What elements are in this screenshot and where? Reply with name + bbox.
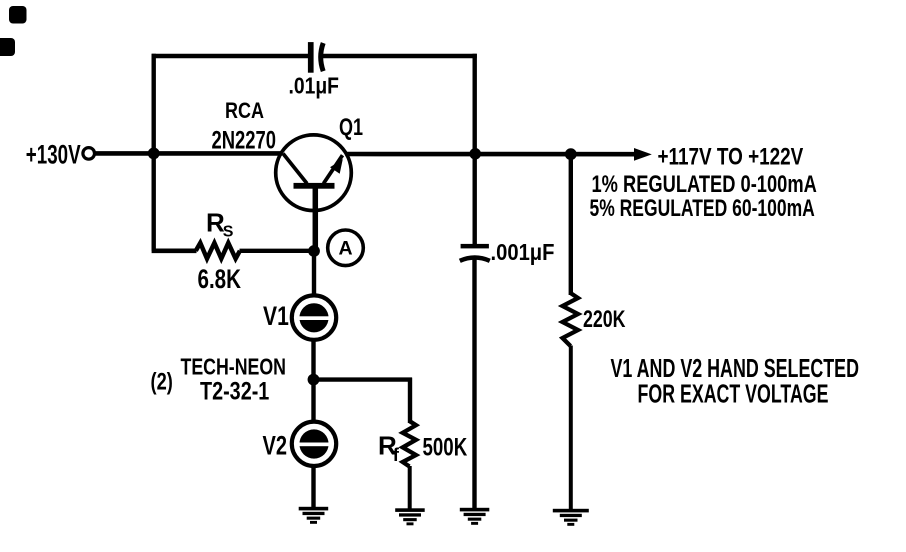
wire V1 to junction <box>311 340 315 382</box>
resistor R_S 6.8K zigzag <box>196 243 240 259</box>
wire junction to Rf corner <box>314 377 413 381</box>
svg-text:TECH-NEON: TECH-NEON <box>181 354 287 380</box>
svg-text:V1: V1 <box>263 301 289 331</box>
ground below Rf <box>395 508 425 525</box>
svg-text:6.8K: 6.8K <box>198 264 242 294</box>
wire Rf top lead <box>408 378 412 423</box>
scan artifact square top-left <box>9 6 27 24</box>
wire main horizontal right (Q1 to output arrow) <box>345 152 638 157</box>
junction below V1 <box>308 374 320 386</box>
junction input node <box>148 148 160 160</box>
svg-text:FOR EXACT VOLTAGE: FOR EXACT VOLTAGE <box>638 380 829 408</box>
svg-text:V2: V2 <box>263 430 288 460</box>
junction at top-right vertical <box>469 148 481 160</box>
svg-text:T2-32-1: T2-32-1 <box>200 377 269 405</box>
svg-text:2N2270: 2N2270 <box>212 126 277 154</box>
wire Rf bottom lead <box>408 466 412 511</box>
wire top feedback right segment <box>322 54 477 59</box>
resistor 220K zigzag <box>563 293 579 346</box>
transistor Q1 <box>276 135 352 211</box>
svg-text:220K: 220K <box>583 306 626 333</box>
wire output vertical upper (junction to 220K) <box>569 154 573 295</box>
capacitor C1 .01uF plates <box>308 42 323 73</box>
wire Rs left lead <box>152 249 197 254</box>
junction node A dot <box>308 245 320 257</box>
wire right vertical upper (top wire to C2) <box>473 54 477 245</box>
wire Q1 base stem down <box>313 186 319 251</box>
neon lamp V2 <box>292 422 336 466</box>
arrowhead output <box>634 148 652 161</box>
resistor R_f 500K zigzag <box>403 421 416 466</box>
wire main horizontal left (input to Q1) <box>95 151 282 156</box>
svg-text:+130V: +130V <box>26 139 81 169</box>
wire Rs right lead <box>240 249 317 253</box>
ground below C2 <box>460 508 490 525</box>
wire right vertical lower (C2 to ground) <box>472 259 476 511</box>
capacitor C2 .001uF <box>460 244 490 261</box>
svg-text:.001μF: .001μF <box>491 239 555 265</box>
ground below V2 <box>299 507 329 524</box>
terminal circle input <box>83 148 95 160</box>
svg-text:RCA: RCA <box>225 98 264 123</box>
node A marker circle <box>328 230 364 266</box>
wire V2 to ground <box>311 466 315 511</box>
svg-text:5% REGULATED 60-100mA: 5% REGULATED 60-100mA <box>590 195 815 222</box>
junction at 220K branch <box>565 148 577 160</box>
wire node A to V1 <box>312 251 316 297</box>
scan artifact square left edge <box>0 38 15 56</box>
wire junction to V2 <box>311 380 315 423</box>
svg-text:A: A <box>338 238 352 260</box>
svg-text:Q1: Q1 <box>339 114 363 141</box>
svg-text:1% REGULATED 0-100mA: 1% REGULATED 0-100mA <box>592 171 817 198</box>
svg-text:.01μF: .01μF <box>289 73 340 99</box>
neon lamp V1 <box>292 295 336 339</box>
svg-text:V1 AND V2 HAND SELECTED: V1 AND V2 HAND SELECTED <box>611 355 860 383</box>
svg-text:500K: 500K <box>423 434 468 462</box>
svg-text:+117V TO +122V: +117V TO +122V <box>658 144 804 171</box>
svg-text:(2): (2) <box>151 369 173 396</box>
wire left vertical (top wire to Rs) <box>151 54 155 251</box>
ground below 220K <box>553 509 589 526</box>
wire top feedback left segment <box>152 54 309 59</box>
wire output vertical lower (220K to ground) <box>569 346 573 512</box>
